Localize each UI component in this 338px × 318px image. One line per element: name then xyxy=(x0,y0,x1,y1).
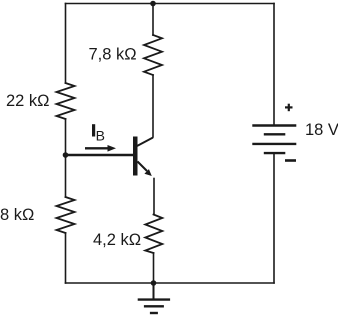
svg-text:22 kΩ: 22 kΩ xyxy=(6,92,50,110)
wire top horizontal xyxy=(66,3,275,5)
wire left vertical upper xyxy=(65,4,67,84)
battery plus sign xyxy=(285,104,293,112)
node bottom junction xyxy=(151,280,157,286)
resistor 22 kOhm xyxy=(57,83,75,119)
node base junction xyxy=(63,152,69,158)
svg-text:4,2 kΩ: 4,2 kΩ xyxy=(93,231,141,249)
svg-text:8 kΩ: 8 kΩ xyxy=(0,206,34,224)
wire emitter vertical xyxy=(153,179,155,215)
node top junction xyxy=(150,1,156,7)
resistor 4,2 kOhm xyxy=(145,215,162,254)
wire left vertical middle xyxy=(65,119,67,197)
label IB text xyxy=(92,124,95,136)
wire left vertical lower xyxy=(65,233,67,283)
wire right vertical upper xyxy=(273,4,275,126)
resistor 8 kOhm xyxy=(57,197,75,233)
label IB current arrow xyxy=(85,145,116,152)
svg-text:B: B xyxy=(96,128,105,144)
battery minus sign xyxy=(285,159,296,162)
svg-text:7,8 kΩ: 7,8 kΩ xyxy=(89,46,137,64)
svg-text:18 V: 18 V xyxy=(305,121,338,139)
battery 18V xyxy=(252,126,296,154)
wire emitter to bottom xyxy=(153,253,155,283)
ground xyxy=(138,283,170,313)
wire base xyxy=(66,154,134,156)
resistor 7,8 kOhm xyxy=(144,35,162,75)
wire collector vertical xyxy=(152,75,154,137)
wire right vertical lower xyxy=(273,153,275,283)
wire bottom horizontal xyxy=(66,282,275,284)
transistor Q1 xyxy=(133,137,153,177)
wire collector riser xyxy=(152,4,154,36)
